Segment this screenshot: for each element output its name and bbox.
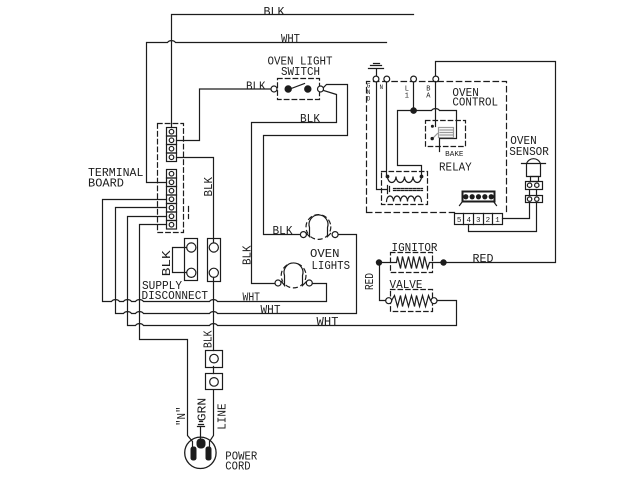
connector 54321	[455, 214, 503, 225]
wire L1 into box	[413, 82, 415, 111]
svg-text:4: 4	[466, 217, 471, 225]
wire L1 junction to relay (hop over BA)	[414, 109, 457, 139]
wire relay coil stub	[439, 139, 441, 152]
wire N line to power cord	[140, 225, 193, 447]
svg-text:BOARD: BOARD	[88, 178, 124, 191]
power cord plug	[185, 437, 216, 468]
svg-text:N: N	[379, 84, 383, 91]
svg-text:BAKE: BAKE	[445, 151, 464, 159]
svg-text:RED: RED	[473, 253, 494, 266]
svg-text:CORD: CORD	[225, 461, 250, 474]
svg-text:BLK: BLK	[203, 330, 216, 348]
label L 1	[405, 86, 409, 101]
wire supply disconnect to line terminals	[210, 278, 214, 448]
wire switch to oven light 2 (lower route)	[252, 91, 337, 284]
transformer primary coil	[388, 177, 422, 183]
svg-text:BLK: BLK	[246, 81, 266, 94]
relay coil detail	[433, 128, 454, 139]
transformer core	[394, 189, 423, 191]
wire pin1 to sensor	[503, 203, 530, 219]
wire ignitor to valve	[380, 263, 386, 301]
svg-text:SWITCH: SWITCH	[281, 66, 320, 79]
wire pin4 to sensor	[469, 203, 537, 232]
svg-text:BLK: BLK	[273, 225, 293, 238]
node primary left	[386, 175, 390, 179]
label POWER CORD	[225, 450, 257, 473]
wire WHT line A (neutral to light 2) with hops	[103, 200, 327, 302]
relay contact dots	[431, 125, 434, 128]
wire WHT top feed (N to terminal board) with hop	[147, 41, 387, 183]
svg-text:D: D	[367, 96, 371, 103]
label G N D	[367, 83, 371, 103]
svg-text:A: A	[426, 93, 431, 101]
svg-text:BLK: BLK	[203, 177, 216, 197]
label B A	[426, 86, 431, 101]
valve terminal right	[431, 298, 437, 304]
terminal board lower group (7 terminals)	[167, 170, 177, 230]
svg-text:WHT: WHT	[281, 33, 300, 46]
terminal N	[384, 76, 390, 82]
svg-text:3: 3	[476, 217, 481, 225]
line terminal block 2	[206, 374, 223, 390]
svg-text:VALVE: VALVE	[390, 279, 423, 292]
svg-text:1: 1	[495, 217, 500, 225]
ground GRN bars and stub	[198, 422, 205, 441]
connector plug (5 pin black)	[460, 192, 497, 206]
node primary right	[420, 175, 424, 179]
label OVEN CONTROL	[452, 87, 498, 109]
transformer dashed box	[382, 172, 428, 205]
svg-text:GRN: GRN	[197, 398, 210, 422]
node L1 junction	[410, 107, 417, 114]
svg-text:5: 5	[457, 217, 462, 225]
wire terminal board to supply disconnect	[177, 158, 214, 244]
wire WHT line C (neutral to valve) with hops	[128, 217, 457, 326]
terminal L1	[411, 76, 417, 82]
terminal BA	[433, 76, 439, 82]
supply disconnect right block	[208, 239, 221, 282]
svg-text:WHT: WHT	[261, 304, 281, 317]
wire BLK jumper on left block	[173, 248, 187, 273]
svg-text:BLK: BLK	[241, 245, 254, 265]
oven sensor bulb	[522, 159, 546, 182]
wire N into box	[386, 82, 388, 177]
valve dashed box	[391, 290, 433, 312]
svg-text:CONTROL: CONTROL	[452, 96, 498, 109]
svg-text:"N": "N"	[176, 406, 189, 426]
label OVEN LIGHTS	[310, 248, 350, 273]
svg-text:LIGHTS: LIGHTS	[312, 260, 351, 273]
svg-text:BLK: BLK	[161, 250, 174, 276]
svg-text:RED: RED	[364, 273, 377, 290]
dash tick right of terminal board	[188, 207, 190, 219]
label TERMINAL BOARD	[88, 167, 143, 191]
label SUPPLY DISCONNECT	[142, 280, 209, 303]
svg-text:SENSOR: SENSOR	[509, 146, 549, 159]
wire BLK top feed (L1 to terminal board)	[172, 15, 414, 128]
wire switch feed from terminal board	[177, 89, 272, 141]
svg-text:RELAY: RELAY	[439, 161, 472, 174]
terminal board upper group (4 terminals)	[167, 128, 177, 162]
svg-text:WHT: WHT	[317, 316, 339, 329]
sensor block link wires	[530, 190, 537, 196]
svg-text:2: 2	[486, 217, 491, 225]
sensor connector block 1	[526, 182, 543, 190]
sensor connector block 2	[526, 196, 543, 203]
oven control dashed box	[367, 82, 507, 213]
valve terminal left	[386, 298, 392, 304]
relay dashed box	[426, 121, 466, 147]
node ignitor left	[376, 259, 382, 265]
wire BA into relay coil	[435, 82, 437, 127]
svg-text:WHT: WHT	[243, 291, 261, 304]
resistor valve	[392, 296, 431, 307]
line terminal block 1	[206, 351, 223, 368]
wire switch to oven light 1 (upper route)	[264, 85, 348, 235]
transformer core ground bars	[388, 186, 390, 194]
oven light switch S1	[271, 79, 324, 100]
resistor ignitor	[383, 257, 441, 269]
labels 5 4 3 2 1	[457, 217, 500, 225]
svg-text:IGNITOR: IGNITOR	[392, 242, 438, 255]
transformer secondary coil	[387, 196, 422, 202]
wire GND to transformer core	[377, 82, 387, 190]
svg-text:LINE: LINE	[217, 403, 230, 429]
oven light 1	[300, 215, 338, 240]
label OVEN LIGHT SWITCH	[268, 56, 333, 79]
terminal board dashed outline	[158, 124, 184, 233]
wire BA feed to ignitor (RED)	[436, 62, 556, 263]
svg-text:1: 1	[405, 93, 409, 101]
node ignitor right	[440, 259, 446, 265]
svg-text:BLK: BLK	[264, 6, 285, 19]
wire L1 junction to transformer primary	[398, 111, 422, 177]
oven light 2	[275, 263, 312, 288]
chassis ground symbol	[369, 64, 384, 77]
ignitor dashed box	[391, 253, 433, 273]
label OVEN SENSOR	[509, 135, 549, 159]
wire WHT line B (neutral to light 1) with hops	[116, 208, 357, 314]
svg-text:BLK: BLK	[300, 113, 320, 126]
terminal GND	[373, 76, 379, 82]
supply disconnect left block	[185, 239, 198, 281]
